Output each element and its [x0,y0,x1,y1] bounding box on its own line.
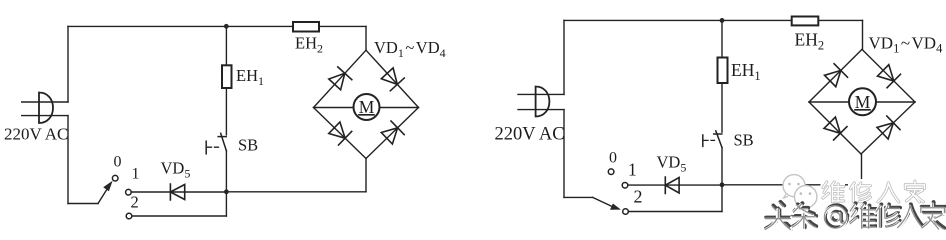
svg-text:1: 1 [628,160,637,180]
switch SA contact 0 [112,175,118,181]
resistor EH2 (horizontal box in top bus) [293,22,319,32]
svg-text:M: M [855,92,871,112]
svg-text:M: M [359,97,375,117]
motor M underline [855,109,870,111]
bridge diode VD4 (bottom to right arm) [381,121,404,144]
wire: EH1 bottom to pushbutton SB top contact [225,88,227,135]
wire: left vertical from top bus down to plug upper prong [563,20,565,94]
wire: left vertical from plug lower prong down to switch pivot [563,110,565,198]
wire: vertical from top bus down to EH1 [225,26,227,65]
switch SA contact 1 [622,183,628,189]
wire: switch pivot horizontal segment [68,203,98,205]
svg-text:2: 2 [634,187,643,207]
bridge arm: top vertex to right vertex [366,50,419,107]
svg-text:VD1~VD4: VD1~VD4 [869,34,944,56]
pushbutton SB: actuator bar [702,135,704,146]
svg-text:0: 0 [114,154,122,171]
wire: contact 2 horizontal run [629,211,723,213]
wire: top horizontal bus (right circuit) [564,19,863,21]
pushbutton SB: movable blade [716,131,722,148]
switch SA contact 1 [126,189,132,195]
bridge diode VD3 (left to bottom arm) [329,122,352,145]
svg-text:220V AC: 220V AC [495,125,565,145]
svg-text:220V AC: 220V AC [4,125,68,144]
pushbutton SB: movable blade [221,133,227,150]
svg-text:VD1~VD4: VD1~VD4 [374,38,446,60]
wire: vertical from top bus down to EH1 [721,20,723,57]
bridge arm: left vertex to top vertex [809,49,862,102]
bridge diode VD2 (top to right arm) [878,65,901,88]
switch SA contact 2 [623,209,629,215]
wire: riser to bridge bottom vertex [861,154,863,185]
motor M circle [849,88,876,115]
pushbutton SB: fixed contact tick [218,136,226,138]
watermark text line 1: 维修人家 (hollow light gray) [821,179,927,205]
switch SA wiper arm with arrowhead (pointing to contact 0) [98,190,107,204]
wire: top horizontal bus (left circuit) [68,25,366,27]
wire: contact 2 riser up to node A [225,192,227,216]
pushbutton SB: actuator dashed link [208,146,220,148]
wire: switch pivot horizontal segment [564,196,593,198]
svg-text:SB: SB [734,131,754,150]
diode VD5 (cathode bar left, triangle pointing left) [665,177,679,194]
wire: contact 2 riser up to node B [721,185,723,212]
switch SA wiper arm with arrowhead (pointing to contact 2) [593,197,612,206]
wire: riser to bridge bottom vertex [365,159,367,192]
svg-text:SB: SB [238,136,258,155]
wire: contact 1 to node B through diode VD5 [628,184,722,186]
resistor EH2 (horizontal box in top bus) [792,17,819,26]
bridge diode VD4 (bottom to right arm) [877,116,900,139]
wire: bridge DC diagonal through motor [314,107,419,109]
wire: SB bottom contact down to node B [721,148,723,185]
wire: SB bottom contact down to node A [225,151,227,192]
bridge arm: left vertex to bottom vertex [314,108,367,159]
bridge arm: bottom vertex to right vertex [366,108,419,159]
motor M circle [354,94,380,120]
resistor EH1 (vertical box) [718,58,728,84]
bridge diode VD3 (left to bottom arm) [824,117,847,140]
node A junction dot [224,189,229,194]
pushbutton SB: fixed contact tick [714,133,722,135]
diode VD5 (cathode bar left, triangle pointing left) [170,184,184,200]
node B junction dot [720,182,725,187]
plug X1 220V AC: upper prong [22,101,68,103]
motor M underline [359,114,374,116]
wire: node A to bottom-right corner under bridge [226,191,366,193]
wire: node B to bottom corner under bridge [722,184,862,186]
junction dot on top bus [224,24,229,29]
plug X1 220V AC: body (D shape) [39,93,53,124]
watermark text line 2: 头条 @维修人家 (gray embossed) [766,202,945,228]
wire: contact 1 to node A through diode VD5 [131,191,226,193]
bridge arm: bottom vertex to right vertex [861,102,915,154]
wire: contact 2 horizontal run [132,215,226,217]
bridge arm: left vertex to bottom vertex [809,102,861,154]
bridge diode VD1 (lower-left to top arm) [329,67,352,90]
pushbutton SB: actuator bar [205,141,207,154]
wire: left vertical from plug lower prong down to switch pivot [67,116,69,204]
plug X1 220V AC: lower prong [22,115,68,117]
wire: top-right corner drop to bridge top vertex [862,20,864,49]
plug X2 220V AC: body (D shape) [536,87,550,117]
bridge arm: left vertex to top vertex [314,50,367,107]
svg-text:1: 1 [132,166,140,183]
svg-text:2: 2 [131,193,139,212]
switch SA contact 2 [126,213,132,219]
plug X2 220V AC: upper prong [518,93,564,95]
wire: bridge DC diagonal through motor [809,101,915,103]
bridge diode VD2 (top to right arm) [381,68,404,91]
watermark logo: two chat-bubble faces [783,175,817,209]
bridge arm: top vertex to right vertex [862,49,915,102]
svg-text:0: 0 [609,150,617,167]
wire: EH1 bottom to pushbutton SB top contact [721,83,723,132]
resistor EH1 (vertical box) [222,65,232,88]
switch SA contact 0 [608,169,614,175]
plug X2 220V AC: lower prong [518,109,564,111]
bridge diode VD1 (left to top arm) [825,64,848,87]
pushbutton SB: actuator dashed link [704,139,715,141]
wire: left vertical from top bus down to plug upper prong [67,26,69,102]
wire: top-right corner drop to bridge top vertex [365,26,367,50]
junction dot on top bus [720,18,725,23]
